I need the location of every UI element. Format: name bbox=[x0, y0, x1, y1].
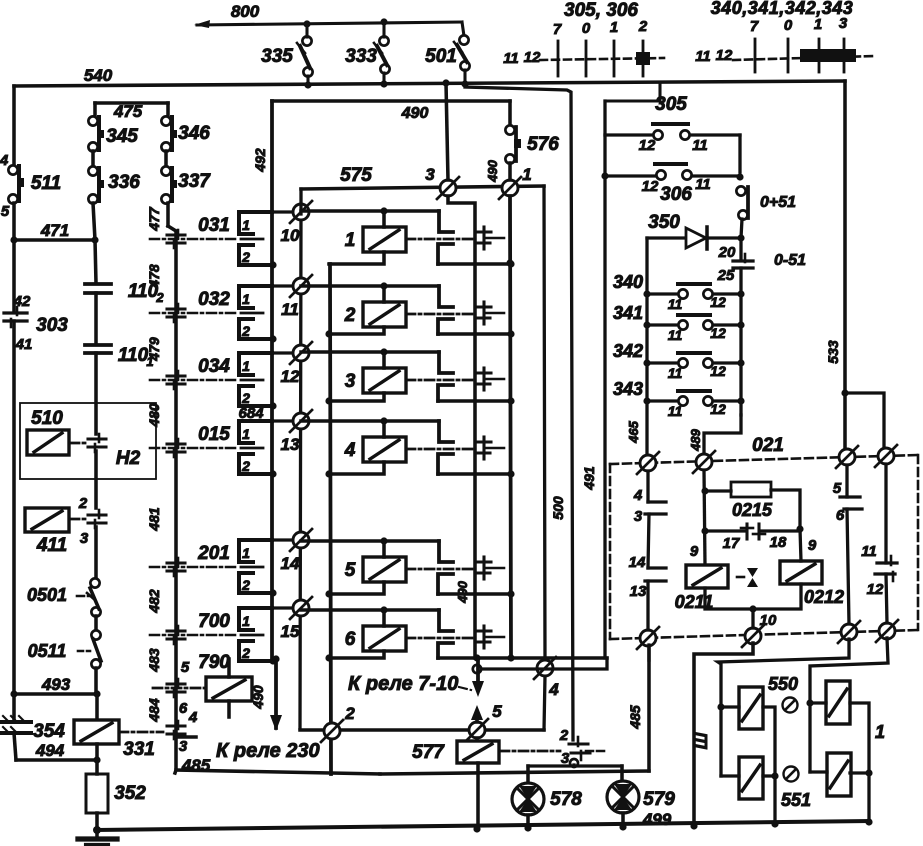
svg-text:354: 354 bbox=[33, 721, 65, 742]
svg-text:10: 10 bbox=[760, 612, 777, 629]
svg-text:578: 578 bbox=[550, 789, 582, 810]
svg-text:12: 12 bbox=[867, 581, 884, 598]
svg-text:6: 6 bbox=[836, 507, 845, 524]
svg-text:2: 2 bbox=[241, 458, 250, 474]
svg-text:13: 13 bbox=[630, 583, 647, 600]
svg-text:11: 11 bbox=[503, 50, 519, 67]
svg-text:0: 0 bbox=[582, 20, 591, 37]
svg-text:352: 352 bbox=[114, 783, 146, 804]
svg-text:577: 577 bbox=[412, 742, 445, 763]
svg-text:1: 1 bbox=[242, 358, 250, 374]
svg-text:032: 032 bbox=[198, 289, 230, 310]
svg-text:0-51: 0-51 bbox=[774, 252, 806, 269]
svg-text:К реле 7-10: К реле 7-10 bbox=[348, 673, 458, 695]
svg-text:2: 2 bbox=[241, 577, 250, 593]
svg-text:4: 4 bbox=[0, 152, 9, 169]
svg-text:480: 480 bbox=[146, 403, 162, 428]
svg-text:Ш: Ш bbox=[692, 732, 711, 749]
svg-text:4: 4 bbox=[344, 440, 356, 461]
svg-text:3: 3 bbox=[634, 508, 643, 525]
svg-text:490: 490 bbox=[401, 105, 429, 122]
svg-text:479: 479 bbox=[146, 337, 162, 362]
svg-text:11: 11 bbox=[695, 176, 711, 193]
svg-text:343: 343 bbox=[613, 379, 643, 399]
svg-text:485: 485 bbox=[627, 705, 643, 730]
svg-text:331: 331 bbox=[123, 739, 155, 760]
svg-text:12: 12 bbox=[639, 137, 656, 154]
svg-text:335: 335 bbox=[261, 46, 293, 67]
svg-text:15: 15 bbox=[281, 622, 300, 641]
svg-text:337: 337 bbox=[178, 171, 211, 192]
svg-text:17: 17 bbox=[723, 535, 740, 552]
svg-text:490: 490 bbox=[455, 580, 470, 603]
svg-text:350: 350 bbox=[648, 212, 680, 233]
svg-text:477: 477 bbox=[146, 206, 162, 232]
svg-text:H2: H2 bbox=[116, 448, 141, 469]
svg-text:303: 303 bbox=[36, 315, 68, 336]
svg-text:2: 2 bbox=[78, 495, 88, 512]
svg-text:4: 4 bbox=[548, 680, 559, 699]
svg-text:2: 2 bbox=[241, 323, 250, 339]
svg-text:4: 4 bbox=[633, 487, 643, 504]
svg-text:0511: 0511 bbox=[28, 641, 67, 661]
svg-text:475: 475 bbox=[113, 102, 143, 121]
svg-text:3: 3 bbox=[425, 165, 435, 184]
svg-text:684: 684 bbox=[238, 405, 264, 422]
svg-text:2: 2 bbox=[344, 704, 355, 723]
svg-text:42: 42 bbox=[13, 293, 31, 310]
svg-text:1: 1 bbox=[242, 291, 250, 307]
svg-text:14: 14 bbox=[629, 554, 646, 571]
svg-text:575: 575 bbox=[340, 165, 372, 186]
svg-text:790: 790 bbox=[198, 652, 230, 673]
svg-text:2: 2 bbox=[241, 645, 250, 661]
svg-text:2: 2 bbox=[241, 249, 250, 265]
svg-text:11: 11 bbox=[668, 327, 683, 343]
svg-text:12: 12 bbox=[710, 325, 726, 341]
svg-text:700: 700 bbox=[198, 611, 230, 632]
svg-text:411: 411 bbox=[36, 535, 67, 556]
svg-text:14: 14 bbox=[281, 554, 300, 573]
svg-text:4: 4 bbox=[188, 709, 198, 726]
svg-text:12: 12 bbox=[710, 294, 726, 310]
svg-text:2: 2 bbox=[155, 290, 164, 305]
svg-text:3: 3 bbox=[179, 738, 188, 755]
svg-text:533: 533 bbox=[825, 340, 841, 364]
svg-text:5: 5 bbox=[492, 702, 502, 721]
svg-text:0: 0 bbox=[784, 17, 793, 34]
svg-text:492: 492 bbox=[252, 148, 268, 173]
svg-text:1: 1 bbox=[875, 722, 885, 742]
svg-text:540: 540 bbox=[84, 66, 113, 85]
svg-text:342: 342 bbox=[613, 341, 643, 361]
svg-text:11: 11 bbox=[861, 543, 877, 560]
svg-text:3: 3 bbox=[80, 530, 89, 547]
svg-text:К реле 230: К реле 230 bbox=[216, 740, 320, 762]
svg-text:11: 11 bbox=[668, 365, 683, 381]
svg-text:7: 7 bbox=[553, 21, 562, 38]
svg-text:12: 12 bbox=[642, 178, 659, 195]
svg-text:18: 18 bbox=[770, 534, 787, 551]
svg-text:341: 341 bbox=[613, 303, 643, 323]
svg-text:3: 3 bbox=[345, 371, 356, 392]
svg-text:485: 485 bbox=[181, 756, 211, 775]
svg-text:12: 12 bbox=[524, 49, 541, 66]
svg-text:1: 1 bbox=[242, 217, 250, 233]
svg-text:551: 551 bbox=[781, 790, 811, 810]
svg-text:501: 501 bbox=[425, 46, 457, 67]
svg-text:340,341,342,343: 340,341,342,343 bbox=[711, 0, 854, 18]
svg-text:494: 494 bbox=[35, 741, 65, 760]
svg-text:493: 493 bbox=[41, 675, 71, 694]
svg-text:306: 306 bbox=[660, 184, 692, 205]
svg-text:031: 031 bbox=[198, 215, 230, 236]
svg-text:110: 110 bbox=[118, 345, 149, 366]
svg-text:0501: 0501 bbox=[27, 585, 67, 605]
svg-text:345: 345 bbox=[106, 126, 138, 147]
svg-text:550: 550 bbox=[768, 674, 798, 694]
svg-text:13: 13 bbox=[281, 435, 300, 454]
svg-text:478: 478 bbox=[146, 264, 162, 289]
svg-text:201: 201 bbox=[197, 543, 230, 564]
svg-text:3: 3 bbox=[839, 15, 848, 32]
svg-text:510: 510 bbox=[31, 408, 63, 429]
svg-text:2: 2 bbox=[638, 18, 648, 35]
svg-text:1: 1 bbox=[610, 19, 618, 36]
svg-text:1: 1 bbox=[522, 165, 531, 184]
svg-text:10: 10 bbox=[281, 226, 300, 245]
svg-text:511: 511 bbox=[31, 173, 61, 194]
svg-text:12: 12 bbox=[710, 363, 726, 379]
svg-text:489: 489 bbox=[688, 428, 703, 451]
svg-text:7: 7 bbox=[750, 18, 759, 35]
svg-text:41: 41 bbox=[15, 336, 33, 353]
svg-text:471: 471 bbox=[40, 221, 69, 240]
svg-text:034: 034 bbox=[198, 356, 230, 377]
svg-text:465: 465 bbox=[626, 420, 641, 443]
svg-text:491: 491 bbox=[581, 466, 597, 491]
svg-text:305, 306: 305, 306 bbox=[564, 0, 638, 21]
svg-text:333: 333 bbox=[345, 46, 377, 67]
svg-text:5: 5 bbox=[345, 560, 356, 581]
svg-text:576: 576 bbox=[527, 134, 559, 155]
svg-text:11: 11 bbox=[695, 48, 711, 65]
svg-text:2: 2 bbox=[559, 727, 569, 744]
svg-text:11: 11 bbox=[668, 296, 683, 312]
svg-text:12: 12 bbox=[281, 367, 300, 386]
svg-text:12: 12 bbox=[716, 47, 733, 64]
svg-text:336: 336 bbox=[108, 172, 140, 193]
svg-text:2: 2 bbox=[344, 305, 356, 326]
svg-text:800: 800 bbox=[231, 2, 260, 21]
svg-text:1: 1 bbox=[242, 426, 250, 442]
svg-text:0215: 0215 bbox=[732, 500, 773, 520]
svg-text:1: 1 bbox=[242, 545, 250, 561]
svg-text:5: 5 bbox=[181, 659, 190, 676]
svg-text:11: 11 bbox=[668, 403, 683, 419]
svg-text:483: 483 bbox=[146, 648, 162, 673]
svg-text:5: 5 bbox=[1, 203, 10, 220]
svg-text:20: 20 bbox=[718, 244, 736, 261]
svg-text:1: 1 bbox=[345, 230, 356, 251]
svg-text:484: 484 bbox=[146, 698, 162, 723]
svg-text:1: 1 bbox=[814, 16, 822, 33]
svg-text:6: 6 bbox=[179, 700, 188, 717]
svg-text:490: 490 bbox=[485, 159, 500, 182]
svg-text:9: 9 bbox=[808, 537, 817, 554]
svg-text:015: 015 bbox=[198, 424, 230, 445]
svg-text:1: 1 bbox=[242, 613, 250, 629]
svg-text:579: 579 bbox=[643, 789, 675, 810]
svg-text:481: 481 bbox=[146, 507, 162, 532]
svg-text:2: 2 bbox=[241, 390, 250, 406]
svg-text:5: 5 bbox=[833, 480, 842, 497]
svg-text:346: 346 bbox=[178, 123, 210, 144]
svg-text:500: 500 bbox=[550, 496, 566, 520]
svg-text:305: 305 bbox=[655, 94, 687, 115]
svg-text:6: 6 bbox=[345, 629, 356, 650]
svg-text:9: 9 bbox=[690, 543, 699, 560]
svg-text:340: 340 bbox=[613, 272, 643, 292]
svg-text:0+51: 0+51 bbox=[760, 194, 796, 211]
svg-text:482: 482 bbox=[146, 589, 162, 614]
svg-text:11: 11 bbox=[281, 300, 299, 319]
svg-text:11: 11 bbox=[692, 137, 708, 154]
svg-text:021: 021 bbox=[752, 435, 784, 456]
svg-text:0212: 0212 bbox=[804, 587, 844, 607]
svg-text:499: 499 bbox=[642, 810, 672, 829]
svg-text:490: 490 bbox=[250, 685, 266, 710]
svg-text:12: 12 bbox=[710, 401, 726, 417]
